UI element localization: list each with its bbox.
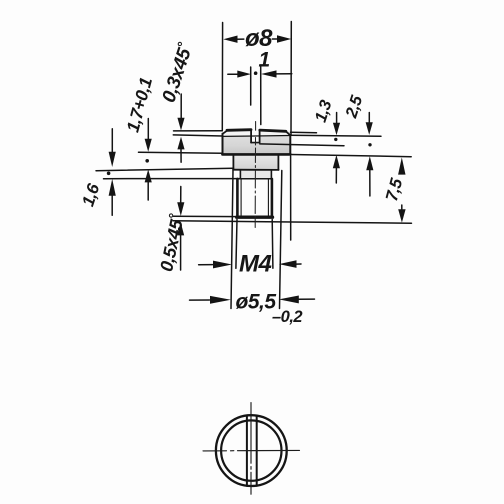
extension line dia8 left <box>221 23 223 131</box>
inner circle <box>221 420 281 480</box>
shoulder bottom edge <box>233 169 279 171</box>
arrow dia8 left <box>223 36 237 43</box>
dimension line dia5,5 <box>190 299 315 300</box>
extension lines head top left <box>173 131 222 136</box>
extension line head chamfer right <box>289 134 381 137</box>
slot wall right bottom view <box>256 416 258 486</box>
dot 1,7 <box>145 159 149 163</box>
arrow slot1 left <box>237 71 251 78</box>
step fill <box>241 170 272 178</box>
extension line dia5,5 left <box>231 171 233 309</box>
arrow 7,5 down <box>398 209 405 222</box>
dimension line 1,3 <box>335 113 337 184</box>
arrow slot1 right <box>261 70 277 77</box>
arrow 2,5 up <box>366 156 373 170</box>
thread minor line right <box>267 180 269 216</box>
dot slot1 <box>254 71 258 75</box>
bottom view <box>216 415 287 486</box>
arrow M4 right <box>279 260 297 268</box>
dimension line 0,5x45 <box>180 187 182 271</box>
outer circle <box>216 415 287 486</box>
arrow M4 left <box>213 261 232 269</box>
slot right wall <box>259 130 261 143</box>
thread minor line left <box>240 180 242 216</box>
dot 2,5 <box>368 143 371 146</box>
center line horizontal bottom view <box>203 449 300 452</box>
slot wall left bottom view <box>246 416 248 486</box>
dimension line 1,6 <box>111 129 113 216</box>
extension line slot bottom right <box>260 144 344 146</box>
dimension line 7,5 <box>401 205 403 210</box>
head top edge left <box>227 128 251 131</box>
dot 1,6 <box>107 172 111 176</box>
slot left wall <box>250 130 252 143</box>
head right edge <box>289 135 291 153</box>
screw head outline <box>222 130 290 218</box>
arrow dia8 right <box>277 35 291 42</box>
svg-text:–0,2: –0,2 <box>272 308 302 326</box>
head bottom edge <box>222 153 290 156</box>
extension line tip chamfer left <box>174 215 238 217</box>
extension line M4 right <box>271 220 274 269</box>
extension line dia8 right <box>290 22 292 136</box>
extension line screw bottom long <box>173 221 412 223</box>
arrow 1,3 down <box>333 123 340 136</box>
arrow 0,5 down <box>177 202 184 216</box>
arrow 0,3 up <box>177 137 184 150</box>
center line front view <box>254 122 256 228</box>
thread right edge <box>271 179 274 217</box>
dimension line 2,5 <box>368 113 371 197</box>
dimension line dia8 <box>236 38 278 40</box>
arrow 0,3 down <box>177 118 184 131</box>
step right edge <box>270 170 272 178</box>
arrow dia5,5 left <box>210 296 231 304</box>
arrow dia5,5 right <box>279 295 299 303</box>
extension line head bottom right <box>291 155 412 157</box>
svg-text:M4: M4 <box>239 251 271 278</box>
extension line head bottom left <box>139 152 223 153</box>
thread top edge <box>237 178 272 180</box>
dimension line 1,7+0,1 <box>147 119 149 201</box>
extension line slot left <box>250 67 252 105</box>
arrow 1,6 up <box>109 179 116 196</box>
head left edge <box>222 134 224 154</box>
extension line slot right <box>260 67 262 125</box>
arrow 1,6 down <box>109 152 116 167</box>
arrow 1,7 down <box>145 139 152 152</box>
dimension line slot width 1 <box>228 73 292 76</box>
projection line head right <box>290 156 292 240</box>
svg-text:1: 1 <box>259 49 270 72</box>
extension line step bottom left <box>104 178 241 180</box>
slot notch fill <box>251 129 259 143</box>
arrow 1,3 up <box>333 155 340 168</box>
head top strip fill <box>224 131 290 137</box>
extension line dia5,5 right <box>280 171 282 309</box>
arrow 2,5 down <box>366 122 373 135</box>
extension line head top right short <box>291 131 317 134</box>
head top edge right <box>260 130 286 131</box>
head top right chamfer <box>286 131 291 135</box>
shoulder left edge <box>232 155 234 169</box>
shoulder right edge <box>277 155 279 170</box>
svg-text:ø5,5: ø5,5 <box>236 291 277 314</box>
dimension line chamfer 0,3x45 <box>180 94 182 162</box>
dimension line M4 <box>199 263 301 266</box>
head top left chamfer <box>223 130 228 134</box>
arrow 1,7 up <box>145 169 152 182</box>
head chamfer line <box>223 135 290 138</box>
step left edge <box>239 170 241 178</box>
shoulder fill <box>234 155 279 170</box>
head fill <box>223 136 290 155</box>
arrow 0,5 up <box>177 222 184 235</box>
arrowheads <box>107 35 406 303</box>
center line vertical bottom view <box>250 403 252 495</box>
extension line shoulder bottom left <box>96 168 234 170</box>
extension line M4 left <box>236 220 237 269</box>
thread bottom edge <box>237 215 273 218</box>
slot bottom <box>251 142 260 144</box>
arrow 7,5 up <box>398 157 405 174</box>
thread left edge <box>236 179 239 217</box>
dot 1,3 <box>334 138 337 141</box>
